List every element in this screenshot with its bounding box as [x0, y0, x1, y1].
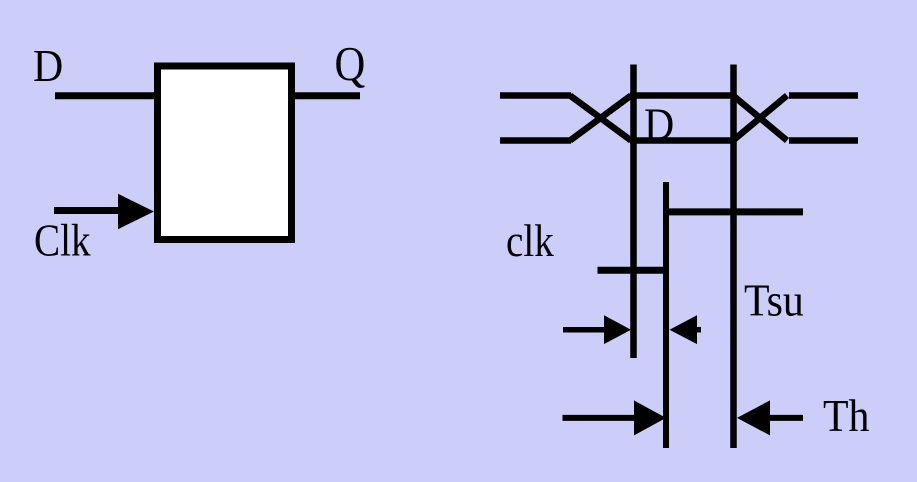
- clk high level wire: [663, 208, 803, 215]
- wire Clk: [54, 207, 125, 214]
- label Clk: [34, 216, 91, 266]
- data crossover X2 falling diagonal: [733, 96, 787, 141]
- svg-text:D: D: [644, 100, 674, 150]
- data crossover X2 rising diagonal: [733, 96, 787, 141]
- svg-text:Th: Th: [823, 392, 870, 442]
- D flip-flop U1 body: [158, 66, 292, 240]
- Th left arrow tail: [563, 415, 641, 421]
- data crossover X1 falling diagonal: [570, 96, 631, 141]
- svg-text:Q: Q: [335, 36, 366, 90]
- clk low level wire: [598, 267, 670, 274]
- svg-text:D: D: [33, 42, 63, 92]
- label Q (flip-flop output): [335, 36, 366, 90]
- Tsu left arrowhead: [604, 315, 631, 344]
- clk rising edge vertical: [663, 182, 669, 448]
- wire data bus bottom left segment: [500, 137, 571, 144]
- label clk: [506, 217, 555, 267]
- label D (flip-flop input): [33, 42, 63, 92]
- label Tsu: [744, 276, 804, 326]
- label Th: [823, 392, 870, 442]
- Clk arrowhead into flip-flop: [118, 194, 154, 229]
- wire D input: [55, 92, 158, 99]
- Tsu right arrow tail stub: [695, 327, 701, 333]
- svg-text:clk: clk: [506, 217, 555, 267]
- Th right arrowhead: [737, 400, 770, 435]
- wire data bus top middle segment: [630, 92, 735, 99]
- svg-text:Clk: Clk: [34, 216, 91, 266]
- wire Q output: [291, 92, 360, 99]
- vertical reference line 2 (hold boundary): [730, 65, 737, 449]
- wire data bus top right segment: [789, 92, 858, 99]
- wire data bus top left segment: [500, 92, 571, 99]
- wire data bus bottom middle segment: [630, 137, 735, 144]
- data crossover X1 rising diagonal: [570, 96, 631, 141]
- Th left arrowhead: [634, 400, 666, 435]
- Th right arrow tail: [768, 415, 803, 421]
- Tsu left arrow tail: [563, 327, 608, 333]
- wire data bus bottom right segment: [789, 137, 858, 144]
- label D (data valid window): [644, 100, 674, 150]
- svg-text:Tsu: Tsu: [744, 276, 804, 326]
- Tsu right arrowhead: [670, 315, 698, 344]
- vertical reference line 1 (data transition): [630, 65, 637, 359]
